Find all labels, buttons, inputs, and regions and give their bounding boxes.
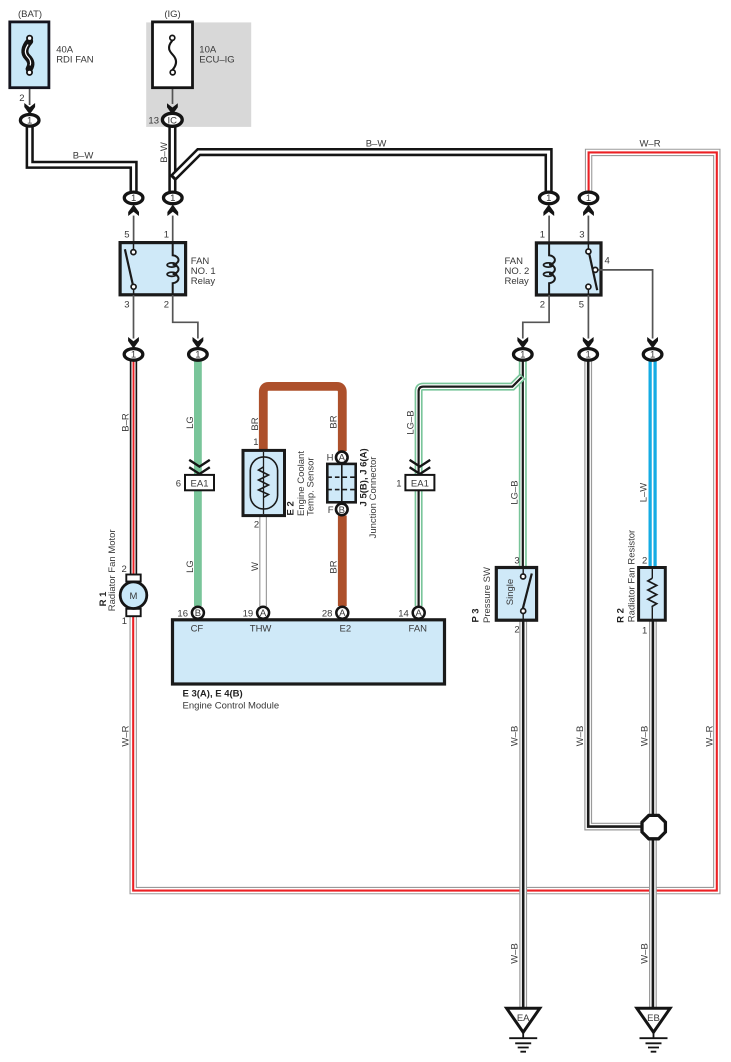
svg-text:3: 3 (579, 230, 584, 241)
svg-text:2: 2 (514, 624, 519, 635)
svg-text:3: 3 (124, 299, 129, 310)
ECM pin 19 circle A (257, 607, 269, 619)
svg-text:Relay: Relay (505, 276, 530, 287)
ECM pin 14 circle A (413, 607, 425, 619)
ECM box (173, 620, 445, 684)
svg-text:W–B: W–B (639, 943, 650, 964)
wire W-B resistor pin 1 to octagon and ground EB (649, 620, 657, 1008)
relay 2 switch contact top (pin 3) (586, 249, 591, 254)
wire B-R relay 1 pin 3 to motor (130, 360, 137, 575)
svg-text:B–W: B–W (73, 151, 94, 162)
svg-text:EA1: EA1 (191, 479, 209, 490)
svg-text:2: 2 (164, 299, 169, 310)
svg-text:FAN: FAN (409, 623, 428, 634)
relay 1 switch contact top (pin 5) (131, 250, 136, 255)
resistor box R2 (639, 568, 666, 621)
connector oval 1 above relay 2 pin 3 (579, 192, 598, 204)
svg-text:W–B: W–B (510, 943, 521, 964)
svg-text:1: 1 (540, 230, 545, 241)
svg-text:E 2: E 2 (285, 501, 296, 515)
svg-text:4: 4 (605, 255, 610, 266)
svg-text:L–W: L–W (638, 483, 649, 503)
connector oval 1 above relay 2 pin 1 (540, 192, 559, 204)
svg-text:IC: IC (168, 115, 178, 126)
octagon joint (642, 815, 665, 838)
motor R1 circle (120, 582, 147, 609)
wire stem to relay 1 pin 1 (172, 216, 174, 243)
svg-text:W–R: W–R (120, 725, 131, 746)
relay 2 coil (544, 243, 555, 295)
svg-text:LG: LG (185, 560, 196, 573)
connector oval IC (162, 113, 182, 126)
junction connector box (327, 464, 355, 502)
gray panel (IG junction block) (146, 22, 251, 127)
svg-text:Radiator Fan Motor: Radiator Fan Motor (107, 529, 118, 611)
wire stem relay 2 pin 5 down (587, 295, 589, 339)
svg-text:R 2: R 2 (616, 608, 627, 623)
fuse box IG (153, 22, 193, 88)
svg-text:A: A (260, 608, 267, 619)
ground EB (637, 1008, 670, 1051)
wire stem relay 1 pin 2 jog (173, 295, 198, 339)
arrow below oval relay 2 pin 1 (543, 205, 554, 217)
wire stem IG fuse to IC connector (172, 87, 174, 104)
relay 1 internal pin stubs (133, 243, 135, 295)
junction connector pin H circle A (336, 452, 348, 464)
svg-text:THW: THW (250, 623, 272, 634)
svg-text:2: 2 (254, 520, 259, 531)
arrow below oval pin 1 (167, 205, 178, 217)
svg-text:B–W: B–W (366, 138, 387, 149)
svg-text:28: 28 (322, 608, 333, 619)
wire LG-B relay 2 pin 2 to pressure switch (519, 360, 527, 568)
svg-text:B: B (339, 505, 345, 516)
svg-text:W–B: W–B (639, 726, 650, 747)
connector oval 1 below BAT fuse (20, 115, 39, 127)
svg-text:B: B (195, 608, 201, 619)
pressure switch internal stem (522, 568, 524, 621)
sensor stadium outline (250, 457, 277, 509)
svg-text:EA1: EA1 (411, 479, 429, 490)
svg-text:W–B: W–B (510, 726, 521, 747)
svg-text:Relay: Relay (191, 276, 216, 287)
pressure switch blade (523, 574, 532, 609)
svg-text:13: 13 (148, 115, 159, 126)
svg-text:P 3: P 3 (470, 608, 481, 622)
wire stem to relay 2 pin 3 (587, 216, 589, 243)
motor cap bottom (126, 609, 140, 616)
svg-text:3: 3 (514, 555, 519, 566)
svg-text:EB: EB (647, 1013, 660, 1024)
wire B-W branch to relay 2 pin 1 (172, 152, 548, 192)
svg-text:E2: E2 (339, 623, 351, 634)
svg-text:14: 14 (398, 608, 409, 619)
svg-text:B–W: B–W (159, 142, 170, 163)
wire BR sensor pin 1 to junction connector H (263, 386, 342, 451)
svg-text:LG: LG (185, 416, 196, 429)
chevron above EA1 right (410, 460, 431, 474)
svg-text:2: 2 (122, 564, 127, 575)
svg-text:5: 5 (124, 230, 129, 241)
wire B-W from BAT fuse to relay 1 pin 5 (30, 125, 134, 192)
svg-text:LG–B: LG–B (405, 410, 416, 434)
svg-text:1: 1 (164, 230, 169, 241)
svg-text:W–R: W–R (639, 138, 660, 149)
wire stem relay 2 pin 2 jog (523, 295, 549, 339)
ground EA (507, 1008, 540, 1051)
relay 1 coil (167, 243, 178, 295)
svg-text:(IG): (IG) (164, 9, 180, 20)
svg-text:BR: BR (328, 415, 339, 428)
wire L-W relay 2 pin 4 to resistor (648, 360, 656, 568)
relay 2 switch contact middle (pin 4) (593, 267, 598, 272)
svg-text:W–B: W–B (575, 726, 586, 747)
wire BR junction connector F to ECM E2 (338, 516, 347, 607)
pressure switch contact bottom (521, 609, 526, 614)
arrow into oval below relay 2 pin 2 (517, 337, 528, 349)
fuse 40A glyph (25, 41, 31, 69)
relay 1 switch blade (125, 249, 133, 284)
svg-text:6: 6 (176, 479, 181, 490)
resistor internal stems (651, 568, 653, 621)
resistor zigzag (648, 578, 657, 608)
relay box FAN NO.1 (120, 243, 186, 295)
svg-text:A: A (339, 608, 346, 619)
arrow below oval relay 2 pin 3 (583, 205, 594, 217)
arrow into oval below relay 2 pin 4 (647, 337, 658, 349)
wire W sensor pin 2 to ECM THW (259, 516, 267, 606)
wire stem BAT fuse to connector (29, 87, 31, 105)
connector oval 1 below relay 2 pin 4 (643, 349, 662, 361)
svg-text:E 3(A), E 4(B): E 3(A), E 4(B) (183, 689, 243, 700)
connector box EA1 right (405, 475, 434, 490)
arrow below oval pin 5 (128, 205, 139, 217)
sensor internal wire (263, 452, 265, 514)
relay 1 switch contact bottom (pin 3) (131, 284, 136, 289)
sensor box E2 (243, 450, 285, 515)
svg-text:2: 2 (540, 299, 545, 310)
svg-text:LG–B: LG–B (510, 480, 521, 504)
svg-text:2: 2 (642, 555, 647, 566)
junction connector pin F circle B (336, 504, 348, 516)
motor cap top (126, 575, 140, 582)
connector oval 1 above relay 1 pin 5 (124, 192, 143, 204)
wire W-B relay 2 pin 5 to octagon joint (588, 360, 641, 827)
svg-text:Junction Connector: Junction Connector (368, 457, 379, 539)
relay 2 switch blade (589, 254, 597, 291)
sensor thermistor zigzag (259, 467, 269, 498)
pressure switch box P3 (496, 568, 536, 621)
chevron above EA1 left (189, 460, 210, 474)
svg-text:Pressure SW: Pressure SW (482, 567, 493, 623)
svg-text:5: 5 (579, 299, 584, 310)
wire stem to relay 2 pin 1 (548, 216, 550, 243)
connector oval 1 below relay 2 pin 2 (514, 349, 533, 361)
svg-text:W–R: W–R (704, 725, 715, 746)
pressure switch contact top (521, 574, 526, 579)
connector box EA1 left (185, 475, 214, 490)
wire LG-B branch to ECM FAN (419, 376, 523, 606)
connector oval 1 below relay 1 pin 3 (124, 349, 143, 361)
arrow into IC connector (167, 103, 178, 115)
svg-text:F: F (328, 505, 334, 516)
svg-text:2: 2 (19, 93, 24, 104)
wire relay 2 pin 4 to oval (598, 270, 652, 339)
svg-text:A: A (416, 608, 423, 619)
svg-text:Engine Control Module: Engine Control Module (183, 701, 280, 712)
svg-text:1: 1 (396, 479, 401, 490)
arrow into oval below relay 2 pin 5 (583, 337, 594, 349)
svg-text:EA: EA (517, 1013, 530, 1024)
wire B-W from IG fuse to relay 1 pin 1 (168, 126, 176, 192)
arrow into oval below pin 2 (193, 337, 204, 349)
relay 2 switch contact bottom (pin 5) (586, 284, 591, 289)
svg-text:A: A (339, 452, 346, 463)
wire stem relay 1 pin 3 down (133, 295, 135, 339)
fuse box BAT (10, 22, 49, 88)
ECM pin 16 circle B (192, 607, 204, 619)
svg-text:B–R: B–R (121, 413, 132, 432)
svg-text:M: M (130, 591, 138, 602)
relay box FAN NO.2 (536, 243, 601, 295)
wire LG relay 1 pin 2 to ECM CF (194, 360, 202, 606)
svg-text:H: H (327, 452, 334, 463)
svg-text:ECU–IG: ECU–IG (199, 54, 234, 65)
svg-text:Temp. Sensor: Temp. Sensor (306, 457, 317, 516)
svg-text:1: 1 (253, 437, 258, 448)
ECM pin 28 circle A (336, 607, 348, 619)
svg-text:BR: BR (328, 560, 339, 573)
svg-text:W: W (250, 562, 261, 571)
connector oval 1 above relay 1 pin 1 (164, 192, 183, 204)
connector oval 1 below relay 2 pin 5 (579, 349, 598, 361)
svg-text:CF: CF (191, 623, 204, 634)
svg-text:BR: BR (250, 417, 261, 430)
arrow into oval below pin 3 (128, 337, 139, 349)
svg-text:Single: Single (505, 579, 516, 605)
svg-text:1: 1 (642, 625, 647, 636)
connector oval 1 below relay 1 pin 2 (189, 349, 208, 361)
relay 2 internal pin stubs (587, 243, 589, 295)
junction connector grid (341, 464, 343, 502)
svg-text:1: 1 (122, 616, 127, 627)
wire stem to relay 1 pin 5 (133, 216, 135, 243)
svg-text:19: 19 (243, 608, 254, 619)
wire W-B pressure switch pin 2 to ground EA (519, 620, 527, 1008)
svg-text:Radiator Fan Resistor: Radiator Fan Resistor (626, 530, 637, 622)
wire W-R motor to relay 2 pin 3 loop (133, 152, 717, 890)
fuse 10A glyph (169, 41, 176, 70)
svg-text:16: 16 (177, 608, 188, 619)
svg-text:RDI FAN: RDI FAN (56, 54, 94, 65)
svg-text:(BAT): (BAT) (18, 9, 42, 20)
arrow into BAT connector (24, 103, 35, 115)
